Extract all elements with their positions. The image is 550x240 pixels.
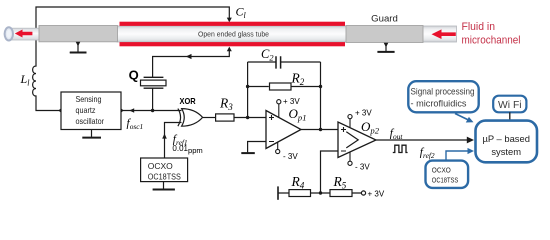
label: Q bbox=[129, 68, 139, 83]
label: R3 bbox=[219, 95, 233, 112]
XOR gate bbox=[178, 109, 203, 127]
label: Op2 bbox=[361, 119, 380, 136]
crystal Q bbox=[141, 77, 167, 110]
svg-text:Wi Fi: Wi Fi bbox=[498, 100, 522, 111]
label: 0.01ppm bbox=[172, 144, 202, 155]
Op2 +3V supply pin bbox=[348, 109, 372, 129]
svg-text:OC18TSS: OC18TSS bbox=[148, 172, 181, 181]
resistor R3 bbox=[216, 114, 234, 121]
node: junction feedback / + input bbox=[246, 116, 249, 119]
svg-text:Q: Q bbox=[129, 68, 139, 83]
left metal collar bbox=[39, 26, 118, 42]
arrowhead into uP system bbox=[467, 137, 474, 144]
node: junction R4/R5 to Op2 - input bbox=[319, 191, 322, 194]
guard electrode collar bbox=[346, 26, 423, 43]
label: fosc1 bbox=[127, 118, 144, 132]
node: junction R2 right bbox=[319, 85, 322, 88]
label: +3V at R5 bbox=[368, 190, 385, 199]
wire: fosc1 output to XOR upper input bbox=[121, 110, 182, 112]
square wave symbol bbox=[393, 145, 408, 152]
svg-text:Guard: Guard bbox=[371, 14, 398, 25]
blue arrow: signal processing to uP bbox=[455, 114, 474, 123]
svg-text:fout: fout bbox=[390, 127, 404, 141]
node: Cl top plate contact bbox=[227, 18, 232, 23]
ground under guard bbox=[377, 43, 394, 52]
svg-text:fosc1: fosc1 bbox=[127, 118, 144, 132]
svg-text:C2: C2 bbox=[261, 47, 274, 63]
label: Guard bbox=[371, 14, 398, 25]
node: junction output/feedback bbox=[319, 128, 322, 131]
node: junction R2 left bbox=[246, 85, 249, 88]
svg-text:system: system bbox=[491, 146, 521, 157]
label: R5 bbox=[333, 174, 347, 191]
label: fout bbox=[390, 127, 404, 141]
svg-text:+ 3V: + 3V bbox=[283, 97, 300, 106]
arrowhead on fref1 wire bbox=[162, 134, 167, 139]
wire: fref1 from OCXO up to XOR lower input bbox=[165, 123, 182, 159]
glass tube body bbox=[117, 26, 457, 42]
label: fref1 bbox=[173, 134, 188, 148]
svg-text:- microfluidics: - microfluidics bbox=[411, 99, 467, 109]
label: Op1 bbox=[289, 106, 307, 123]
wire: R4 R5 row bbox=[278, 192, 361, 194]
svg-text:microchannel: microchannel bbox=[462, 35, 521, 47]
svg-text:Open ended glass tube: Open ended glass tube bbox=[198, 29, 269, 38]
Op1 +3V supply pin bbox=[277, 97, 301, 117]
svg-text:Fluid in: Fluid in bbox=[462, 21, 496, 33]
fluid in red arrow (right) bbox=[432, 29, 456, 39]
label: Open ended glass tube bbox=[198, 29, 269, 38]
svg-text:OC18TSS: OC18TSS bbox=[432, 176, 459, 185]
svg-text:OCXO: OCXO bbox=[432, 165, 451, 174]
blue wire: OCXO2 to uP bbox=[446, 148, 474, 161]
wire: Op2 output to uP system bbox=[376, 139, 468, 141]
svg-text:+ 3V: + 3V bbox=[368, 190, 385, 199]
svg-text:R5: R5 bbox=[333, 174, 347, 191]
svg-text:- 3V: - 3V bbox=[355, 163, 370, 172]
wire: R3 to op-amp U1 + input bbox=[234, 117, 266, 119]
svg-text:+ 3V: + 3V bbox=[355, 109, 372, 118]
svg-text:Op1: Op1 bbox=[289, 106, 307, 123]
svg-text:0.01ppm: 0.01ppm bbox=[172, 144, 202, 155]
wire: C2 row bbox=[248, 61, 321, 63]
svg-text:Signal processing: Signal processing bbox=[411, 87, 475, 97]
wire: XOR output to R3 bbox=[203, 117, 216, 119]
svg-text:R4: R4 bbox=[291, 174, 305, 191]
arrowhead on fosc1 wire bbox=[129, 108, 134, 113]
label: R4 bbox=[291, 174, 305, 191]
Op2 -3V supply pin bbox=[348, 152, 370, 172]
wire: from tube bottom electrode to crystal top bbox=[153, 51, 230, 78]
wire: Op1 - input to ground bbox=[248, 142, 266, 153]
capacitor Cl top electrode (red bar) bbox=[120, 22, 346, 26]
arrowhead on electrode wire bbox=[186, 54, 192, 59]
sensing quartz oscillator box bbox=[61, 92, 121, 130]
label: C2 bbox=[261, 47, 274, 63]
fluid out red arrow (left) bbox=[15, 30, 33, 38]
wire: Op1 output to Op2 + input bbox=[301, 129, 338, 131]
svg-text:Cl: Cl bbox=[236, 5, 247, 21]
svg-text:XOR: XOR bbox=[180, 96, 196, 106]
OCXO OC18TSS box (left) bbox=[141, 158, 188, 182]
svg-text:µP – based: µP – based bbox=[482, 133, 529, 144]
uP based system box bbox=[476, 121, 538, 163]
resistor R2 bbox=[270, 83, 292, 90]
inductor Ll bbox=[33, 64, 61, 111]
node: junction at oscillator input bbox=[59, 109, 62, 112]
resistor R5 bbox=[330, 190, 352, 197]
label: Fluid in microchannel bbox=[462, 21, 521, 47]
capacitor Cl bottom electrode (red bar) bbox=[120, 42, 346, 46]
resistor R4 bbox=[289, 190, 311, 197]
capacitor C2 bbox=[276, 56, 281, 68]
ground under OCXO box bbox=[153, 182, 175, 190]
label: inductor Ll bbox=[20, 72, 31, 88]
svg-text:- 3V: - 3V bbox=[283, 152, 298, 161]
label: XOR bbox=[180, 96, 196, 106]
svg-text:R3: R3 bbox=[219, 95, 233, 112]
label: capacitor Cl bbox=[236, 5, 247, 21]
Op1 -3V supply pin bbox=[276, 142, 299, 162]
svg-text:oscillator: oscillator bbox=[76, 116, 105, 126]
Wi Fi box bbox=[493, 96, 526, 113]
node: junction crystal to fosc1 wire bbox=[151, 109, 154, 112]
wire: WiFi to uP bbox=[509, 112, 511, 120]
ground at Op1 - input bbox=[241, 152, 255, 154]
op-amp U1 bbox=[266, 111, 301, 149]
wire: R2 row bbox=[248, 86, 321, 88]
svg-text:fref2: fref2 bbox=[420, 146, 435, 160]
signal processing box bbox=[408, 81, 478, 112]
tube left thin section bbox=[8, 28, 41, 40]
wire: right feedback vertical bbox=[320, 62, 322, 130]
label: R2 bbox=[291, 70, 305, 87]
svg-text:Ll: Ll bbox=[20, 72, 31, 88]
svg-text:Sensing: Sensing bbox=[76, 94, 102, 104]
wire: left feedback vertical bbox=[247, 62, 249, 118]
op-amp U2 comparator bbox=[338, 122, 376, 158]
node: Cl bottom plate contact bbox=[227, 47, 232, 52]
tube opening ellipse bbox=[5, 27, 13, 40]
svg-text:OCXO: OCXO bbox=[148, 162, 173, 171]
node: terminal bar left of R4 bbox=[277, 186, 279, 199]
svg-text:Op2: Op2 bbox=[361, 119, 380, 136]
svg-text:quartz: quartz bbox=[76, 105, 96, 115]
wire: top frame from left vertical to Cl tap bbox=[36, 7, 229, 64]
svg-text:R2: R2 bbox=[291, 70, 305, 87]
label: fref2 bbox=[420, 146, 435, 160]
OCXO OC18TSS box (right, blue) bbox=[426, 161, 469, 188]
node: junction at oscillator output bbox=[119, 109, 122, 112]
ground under left collar bbox=[70, 42, 87, 53]
node: +3V terminal after R5 bbox=[361, 191, 365, 195]
ground under oscillator box bbox=[82, 130, 101, 138]
wire: Op2 - input to R4/R5 node bbox=[321, 151, 339, 193]
